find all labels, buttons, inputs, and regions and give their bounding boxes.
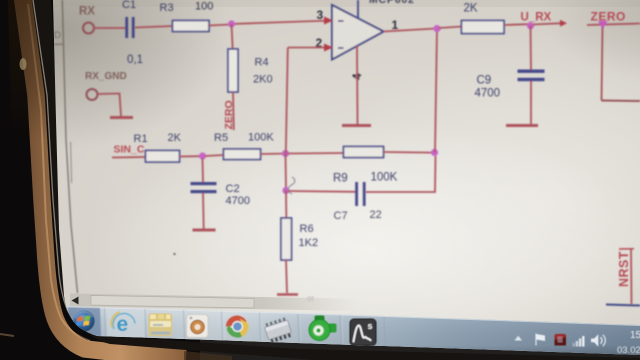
ground (C9) [506,124,538,127]
pin 3 arrowhead [324,17,333,25]
ground (C9) glow [504,123,540,129]
resistor R1 body [146,151,180,163]
zone tick [54,43,63,45]
svg-text:2K: 2K [464,3,478,15]
ground (R6) [277,293,298,296]
svg-text:R5: R5 [214,132,228,144]
capacitor C2 plates [191,182,217,185]
chip icon [263,317,292,344]
wire ZERO riser [602,27,603,101]
green icon [309,316,337,341]
wire U_RX down to C9 [530,26,533,70]
wire node D to R6 [285,191,287,219]
wire node E riser to output node [435,29,437,153]
wire (blue net, bottom right) [606,305,640,306]
svg-text:R9: R9 [333,173,348,185]
ZERO anchor arrow [598,21,608,29]
resistor R4 body [228,49,238,92]
svg-text:4700: 4700 [226,195,250,207]
horizontal scrollbar track [70,294,420,313]
svg-text:100K: 100K [371,172,398,184]
wire R9 to node E [384,151,433,154]
pin 2 arrowhead [324,44,333,52]
svg-text:ZERO: ZERO [591,10,626,24]
svg-text:C1: C1 [122,0,136,11]
screen glare overlays [90,120,640,360]
dark area below screen [200,340,640,360]
node U_RX junction [527,22,534,29]
wire pin 2 riser (node C up to op-amp) [286,48,288,154]
resistor R6 body [281,218,292,260]
resistor R3 body [173,21,210,32]
wire C9 to ground [530,81,532,124]
ground (RX_GND) [110,116,133,119]
wire pin 4 to ground [356,46,359,124]
op-amp U1 [332,5,384,60]
scrollbar thumb [91,296,254,309]
svg-text:e: e [117,313,129,336]
capacitor C1 plates [125,17,128,38]
player icon [187,315,209,338]
IE icon [107,309,145,339]
node E junction [431,149,438,156]
wire node C down to node D [285,154,288,191]
wire output node to R8 [439,27,462,29]
folder icon [149,314,173,337]
wire R4 to net ZERO [232,92,235,130]
svg-text:NRST: NRST [617,251,631,287]
svg-text:2K: 2K [168,132,182,144]
ground (RX_GND) glow [108,115,135,121]
taskbar [50,306,640,358]
svg-text:100K: 100K [248,132,274,144]
start button backdrop [68,307,101,336]
wire R8 to node U_RX [504,23,528,26]
svg-text:C9: C9 [477,75,492,87]
svg-text:100: 100 [195,1,213,13]
squiggle artifact [288,177,295,194]
wire node B down to C2 [202,158,205,182]
taskbar button separators [66,307,385,345]
svg-text:R1: R1 [134,133,148,145]
node D junction [282,187,289,194]
op-amp power pin [357,0,359,19]
wire U_RX stub [533,23,562,24]
wire node D to C7 [288,190,356,193]
wire ZERO elbow [602,100,640,103]
tray flag [536,334,545,346]
svg-text:4700: 4700 [475,88,501,100]
pin 3 minus mark [338,20,344,22]
svg-text:RX: RX [79,6,95,18]
wire R1 to node B [180,155,201,157]
wire NRST [630,249,633,304]
tray network icon [573,336,585,347]
wire node C to R9 [288,152,344,155]
wire RX to C1 [94,27,126,29]
node B junction [199,152,206,159]
wire pin 2 stub [288,47,332,49]
wire node A down to R4 [232,24,233,50]
svg-text:15: 15 [630,330,640,341]
ground (op-amp) glow [340,123,373,129]
svg-text:s: s [368,321,373,331]
tray caret [515,336,523,341]
svg-text:D: D [54,30,61,41]
wire R3 to node A [209,25,230,26]
start orb [73,310,95,332]
output node junction [433,25,440,32]
wire C1 to R3 [135,26,173,28]
tray speaker icon [591,334,605,347]
svg-text:C7: C7 [334,210,348,222]
svg-text:R3: R3 [160,2,174,14]
ground (C2) glow [190,227,218,233]
taskbar top highlight [50,307,640,326]
resistor R8 body [462,21,505,34]
node C junction [282,150,289,157]
wire C2 to ground [202,193,205,229]
svg-text:0,1: 0,1 [127,54,143,66]
svg-text:1K2: 1K2 [299,237,319,249]
waveform icon [350,319,376,346]
wire output pin 1 [384,29,435,32]
wire ZERO horizontal [587,24,640,26]
svg-text:R4: R4 [255,57,269,69]
monitor bezel copper band [22,0,186,358]
ground (op-amp) [342,124,371,127]
scrollbar left arrow [72,297,79,305]
ground (C2) [193,229,216,232]
svg-text:U_RX: U_RX [521,12,552,24]
frame artifact segment [71,142,72,183]
svg-text:SIN_C: SIN_C [114,144,145,156]
capacitor C9 plates [518,70,545,73]
NRST top tick [619,248,634,250]
svg-text:C2: C2 [226,183,240,195]
wire U_RX stub arrow [560,20,567,27]
wire R6 to ground [286,260,287,293]
svg-text:2K0: 2K0 [253,74,273,86]
svg-text:MCP602: MCP602 [369,0,415,6]
svg-text:ZERO: ZERO [223,100,235,129]
svg-text:22: 22 [370,209,382,221]
bezel inner lip highlight [33,0,69,313]
resistor R9 body [344,147,384,158]
speck [173,253,175,255]
tray red icon [555,334,567,346]
wire node B to R5 [205,155,224,156]
port RX circle [83,23,94,34]
port RX_GND circle [87,89,98,100]
wire R5 to node C [261,153,284,155]
chrome icon [226,316,250,339]
svg-text:R6: R6 [300,223,314,235]
wire C7 to node E [366,156,436,192]
wire SIN_C to R1 [112,156,146,159]
wire RX_GND to ground [98,94,122,117]
pin 2 minus mark [338,47,344,49]
svg-text:RX_GND: RX_GND [85,71,127,82]
svg-text:3: 3 [317,8,324,22]
node A junction [228,20,235,27]
capacitor C7 plates [355,182,358,206]
wire node A to pin 3 [231,21,331,25]
resistor R5 body [224,149,261,160]
sheet frame border line [62,0,77,293]
